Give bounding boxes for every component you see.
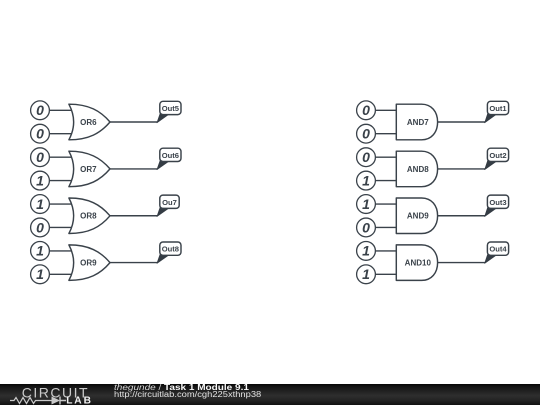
output flag Out5 xyxy=(157,101,181,122)
wire xyxy=(49,133,73,135)
or-gate OR6 xyxy=(69,104,110,140)
and-gate AND9 xyxy=(396,198,437,234)
svg-text:1: 1 xyxy=(362,196,370,212)
svg-text:0: 0 xyxy=(36,102,44,118)
svg-text:0: 0 xyxy=(36,126,44,142)
logic input node (1) xyxy=(357,265,376,284)
output flag Out3 xyxy=(485,195,509,216)
output flag Out1 xyxy=(485,101,509,122)
svg-text:0: 0 xyxy=(362,149,370,165)
svg-text:Out8: Out8 xyxy=(162,245,179,254)
svg-text:0: 0 xyxy=(36,219,44,235)
svg-text:1: 1 xyxy=(362,172,370,188)
wire xyxy=(438,262,485,264)
svg-text:1: 1 xyxy=(36,243,44,259)
svg-text:AND8: AND8 xyxy=(407,165,429,174)
resistor + diode glyph xyxy=(10,398,52,404)
logic input node (0) xyxy=(357,124,376,143)
wire xyxy=(375,273,397,275)
wire xyxy=(110,262,157,264)
svg-text:1: 1 xyxy=(362,243,370,259)
output flag Out2 xyxy=(485,148,509,169)
CircuitLab logo xyxy=(0,384,100,405)
logic input node (1) xyxy=(357,195,376,214)
svg-text:Out3: Out3 xyxy=(489,198,506,207)
wire xyxy=(49,273,73,275)
wire xyxy=(49,226,73,228)
or-gate OR8 xyxy=(69,198,110,234)
logic input node (0) xyxy=(357,218,376,237)
svg-text:Out2: Out2 xyxy=(489,151,506,160)
svg-text:OR7: OR7 xyxy=(80,165,97,174)
svg-text:Out6: Out6 xyxy=(162,151,179,160)
svg-text:AND9: AND9 xyxy=(407,212,429,221)
svg-text:Out1: Out1 xyxy=(489,104,507,113)
wire xyxy=(110,168,157,170)
wire xyxy=(49,250,73,252)
or-gate OR9 xyxy=(69,245,110,281)
wire xyxy=(375,109,397,111)
output flag Out8 xyxy=(157,242,181,263)
wire xyxy=(110,215,157,217)
logic input node (0) xyxy=(357,101,376,120)
logic input node (1) xyxy=(31,265,50,284)
svg-text:OR8: OR8 xyxy=(80,212,97,221)
logic input node (1) xyxy=(31,171,50,190)
svg-text:AND7: AND7 xyxy=(407,118,429,127)
wire xyxy=(438,168,485,170)
output flag Out4 xyxy=(485,242,509,263)
logic input node (0) xyxy=(31,218,50,237)
logic input node (1) xyxy=(357,242,376,261)
svg-text:OR9: OR9 xyxy=(80,259,97,268)
svg-text:Out4: Out4 xyxy=(489,245,507,254)
wire xyxy=(375,180,397,182)
and-gate AND8 xyxy=(396,151,437,187)
wire xyxy=(49,203,73,205)
wire xyxy=(49,180,73,182)
wire xyxy=(110,121,157,123)
CircuitLab footer bar xyxy=(0,384,540,405)
logic input node (0) xyxy=(31,124,50,143)
svg-text:OR6: OR6 xyxy=(80,118,97,127)
svg-text:1: 1 xyxy=(36,196,44,212)
svg-text:0: 0 xyxy=(362,219,370,235)
wire xyxy=(375,156,397,158)
svg-text:0: 0 xyxy=(362,126,370,142)
svg-text:LAB: LAB xyxy=(66,396,93,405)
svg-text:Ou7: Ou7 xyxy=(162,198,177,207)
and-gate AND7 xyxy=(396,104,437,140)
wire xyxy=(375,133,397,135)
logic input node (0) xyxy=(31,148,50,167)
svg-text:1: 1 xyxy=(36,266,44,282)
svg-text:1: 1 xyxy=(36,172,44,188)
output flag Ou7 xyxy=(157,195,179,216)
wire xyxy=(49,109,73,111)
logic input node (0) xyxy=(357,148,376,167)
svg-text:0: 0 xyxy=(362,102,370,118)
wire xyxy=(438,215,485,217)
wire xyxy=(375,203,397,205)
wire xyxy=(49,156,73,158)
svg-text:1: 1 xyxy=(362,266,370,282)
and-gate AND10 xyxy=(396,245,437,281)
svg-text:AND10: AND10 xyxy=(405,259,432,268)
logic input node (1) xyxy=(31,195,50,214)
or-gate OR7 xyxy=(69,151,110,187)
logic input node (1) xyxy=(31,242,50,261)
wire xyxy=(375,226,397,228)
logic input node (1) xyxy=(357,171,376,190)
wire xyxy=(438,121,485,123)
logic input node (0) xyxy=(31,101,50,120)
wire xyxy=(375,250,397,252)
output flag Out6 xyxy=(157,148,181,169)
svg-text:0: 0 xyxy=(36,149,44,165)
svg-text:Out5: Out5 xyxy=(162,104,180,113)
